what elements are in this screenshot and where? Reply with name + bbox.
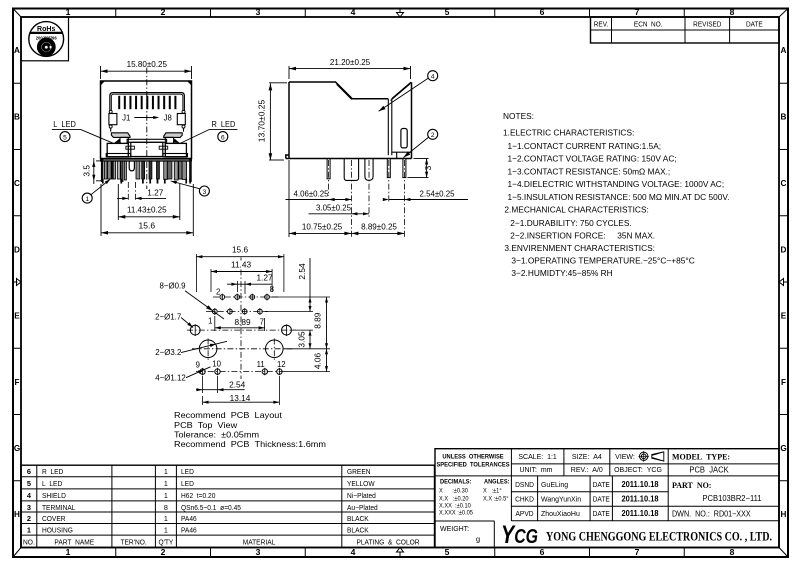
callout 1 <box>82 193 92 203</box>
front view dim 3.5 <box>96 160 101 162</box>
side view dim 4.06 <box>286 199 352 201</box>
svg-text:1.27: 1.27 <box>147 187 163 197</box>
svg-text:10.75±0.25: 10.75±0.25 <box>302 221 343 231</box>
svg-text:X :±1°: X :±1° <box>483 488 502 494</box>
svg-text:Recommend PCB Layout: Recommend PCB Layout <box>174 410 282 420</box>
svg-text:APVD: APVD <box>515 511 533 518</box>
svg-text:5: 5 <box>445 7 450 17</box>
svg-text:21.20±0.25: 21.20±0.25 <box>330 57 371 67</box>
svg-text:12: 12 <box>277 360 286 369</box>
svg-text:8: 8 <box>164 503 168 512</box>
svg-text:Ni−Plated: Ni−Plated <box>347 493 376 500</box>
svg-text:3: 3 <box>423 165 433 170</box>
svg-text:2−2.INSERTION FORCE: 35N M: 2−2.INSERTION FORCE: 35N MAX. <box>510 230 655 240</box>
side view dim 3 <box>414 158 429 160</box>
parts table grid <box>21 465 435 547</box>
svg-text:7: 7 <box>635 547 640 557</box>
callout 4 <box>428 71 438 81</box>
svg-text:1: 1 <box>164 491 168 500</box>
svg-text:1: 1 <box>27 526 31 535</box>
front view contact comb slots <box>118 96 120 109</box>
svg-text:2−1.DURABILITY: 750 CYCLES.: 2−1.DURABILITY: 750 CYCLES. <box>510 218 631 228</box>
title block outline <box>435 449 779 548</box>
callout 5 <box>60 132 70 142</box>
svg-text:1: 1 <box>164 479 168 488</box>
svg-text:2: 2 <box>27 514 31 523</box>
svg-text:F: F <box>781 378 786 387</box>
svg-text:4: 4 <box>27 491 32 500</box>
svg-text:L LED: L LED <box>53 120 76 129</box>
svg-text:E: E <box>781 311 787 320</box>
svg-text:3.05±0.25: 3.05±0.25 <box>316 204 351 213</box>
front view body outline <box>101 81 192 159</box>
front view socket opening <box>110 93 184 111</box>
title block tolerance cell <box>435 475 511 477</box>
side view latch slot <box>401 129 407 148</box>
svg-text:LED: LED <box>181 469 194 476</box>
sheet centering marks <box>397 9 404 18</box>
svg-text:3: 3 <box>27 503 31 512</box>
svg-text:8.89: 8.89 <box>313 312 323 329</box>
svg-text:YONG CHENGGONG ELECTRONICS: YONG CHENGGONG ELECTRONICS CO. , LTD. <box>546 529 772 544</box>
svg-text:SIZE: A4: SIZE: A4 <box>572 452 602 461</box>
side view roof double lines <box>337 84 352 99</box>
svg-text:L LED: L LED <box>42 481 62 488</box>
pcb dim 11.43 <box>228 261 254 270</box>
svg-text:ANGLES:: ANGLES: <box>484 479 509 485</box>
svg-text:1.ELECTRIC CHARACTERISTICS:: 1.ELECTRIC CHARACTERISTICS: <box>503 128 634 138</box>
zone ticks top/bottom <box>115 9 117 18</box>
side view shield inner verticals <box>387 99 389 155</box>
svg-text:1−3.CONTACT RESISTANCE: 50mΩ M: 1−3.CONTACT RESISTANCE: 50mΩ MAX.; <box>508 166 671 176</box>
pcb pins 9-12 <box>196 371 286 373</box>
svg-text:PART NAME: PART NAME <box>54 539 94 546</box>
svg-text:3.05: 3.05 <box>296 331 306 348</box>
svg-text:2011.10.18: 2011.10.18 <box>621 495 659 504</box>
pcb view centerline <box>240 258 242 380</box>
svg-text:8: 8 <box>270 285 274 294</box>
svg-text:3.ENVIRENMENT CHARACTERISTICS:: 3.ENVIRENMENT CHARACTERISTICS: <box>504 243 655 253</box>
svg-text:R LED: R LED <box>211 120 235 129</box>
svg-text:PCB103BR2−111: PCB103BR2−111 <box>702 494 761 503</box>
svg-text:H: H <box>14 510 20 519</box>
front view dim 15.6 <box>100 184 102 236</box>
side view dim 3.05 <box>309 213 370 215</box>
svg-text:RoHs: RoHs <box>37 24 55 33</box>
svg-text:15.6: 15.6 <box>139 220 156 230</box>
svg-text:8.89: 8.89 <box>234 317 250 327</box>
svg-text:6: 6 <box>540 547 545 557</box>
svg-text:ZhouXiaoHu: ZhouXiaoHu <box>541 509 580 518</box>
svg-text:UNLESS OTHERWISE: UNLESS OTHERWISE <box>442 453 503 460</box>
svg-text:PART NO:: PART NO: <box>672 481 711 490</box>
title block part no <box>668 505 779 507</box>
svg-text:B: B <box>781 112 787 121</box>
callout 6 <box>218 132 228 142</box>
svg-text:SHIELD: SHIELD <box>42 493 66 500</box>
svg-text:11: 11 <box>257 360 265 369</box>
svg-text:TER'NO.: TER'NO. <box>120 539 146 546</box>
svg-text:9: 9 <box>196 361 200 370</box>
svg-text:G: G <box>14 444 20 453</box>
front view LED housing left <box>111 133 130 138</box>
RoHS logo circle <box>29 22 64 57</box>
svg-text:QSn6.5−0.1 ø=0.45: QSn6.5−0.1 ø=0.45 <box>181 505 241 512</box>
svg-text:2−Ø3.2: 2−Ø3.2 <box>155 348 182 357</box>
svg-text:PCB Top View: PCB Top View <box>174 420 238 430</box>
svg-text:WangYunXin: WangYunXin <box>541 494 581 503</box>
front view shield edge legs <box>101 159 103 182</box>
svg-text:C: C <box>781 179 787 188</box>
pcb holes 1.7 <box>187 329 296 331</box>
svg-text:4: 4 <box>351 7 356 17</box>
svg-text:DATE: DATE <box>593 496 611 503</box>
svg-text:Au−Plated: Au−Plated <box>347 505 378 512</box>
side view body outline <box>286 82 412 159</box>
svg-text:4.06±0.25: 4.06±0.25 <box>294 189 329 198</box>
svg-text:DATE: DATE <box>593 482 611 489</box>
svg-text:PA46: PA46 <box>181 516 197 523</box>
svg-text:REVISED: REVISED <box>693 21 721 28</box>
svg-text:10: 10 <box>212 360 221 369</box>
svg-text:A: A <box>14 46 20 55</box>
svg-text:1: 1 <box>85 196 89 203</box>
svg-text:2011.10.18: 2011.10.18 <box>621 480 659 489</box>
svg-text:DECIMALS:: DECIMALS: <box>440 479 471 485</box>
svg-text:5: 5 <box>27 479 31 488</box>
frame corner diagonals <box>13 9 21 18</box>
svg-text:11.43±0.25: 11.43±0.25 <box>127 204 167 214</box>
svg-text:3−1.OPERATING TEMPERATURE.−25°: 3−1.OPERATING TEMPERATURE.−25°C~+85°C <box>511 255 694 265</box>
svg-text:2: 2 <box>431 132 435 139</box>
front view centerline <box>146 68 148 190</box>
zone ticks left/right <box>13 82 21 84</box>
svg-text:2: 2 <box>161 7 166 17</box>
pcb top row pin holes <box>213 296 279 298</box>
svg-text:2−Ø1.7: 2−Ø1.7 <box>155 312 182 321</box>
svg-text:NOTES:: NOTES: <box>503 111 534 121</box>
svg-text:3: 3 <box>256 547 261 557</box>
svg-text:J1: J1 <box>122 114 130 123</box>
svg-text:H62 t=0.20: H62 t=0.20 <box>181 493 216 500</box>
svg-text:6: 6 <box>221 134 225 141</box>
svg-text:OBJECT: YCG: OBJECT: YCG <box>614 465 662 474</box>
title block sign rows <box>511 475 779 477</box>
svg-text:VIEW:: VIEW: <box>615 452 635 461</box>
svg-text:3.5: 3.5 <box>82 165 92 177</box>
title block weight cell <box>435 520 494 522</box>
svg-text:WEIGHT:: WEIGHT: <box>440 524 469 533</box>
svg-text:YCG: YCG <box>501 521 538 549</box>
svg-text:GuELing: GuELing <box>541 480 568 489</box>
svg-text:J8: J8 <box>164 114 172 123</box>
svg-text:1: 1 <box>164 514 168 523</box>
svg-text:5: 5 <box>445 547 450 557</box>
svg-text:4.06: 4.06 <box>313 353 323 370</box>
svg-text:F: F <box>14 378 19 387</box>
svg-text:R LED: R LED <box>42 469 63 476</box>
svg-text:BLACK: BLACK <box>347 527 369 534</box>
svg-text:5: 5 <box>63 134 67 141</box>
svg-text:1: 1 <box>164 467 168 476</box>
RoHS logo box <box>21 17 69 61</box>
front view U pin <box>129 161 134 171</box>
svg-text:7: 7 <box>635 7 640 17</box>
pcb bottom row pin holes <box>206 311 268 313</box>
svg-text:3−2.HUMIDTY:45−85% RH: 3−2.HUMIDTY:45−85% RH <box>511 268 612 278</box>
svg-text:SCALE: 1:1: SCALE: 1:1 <box>518 452 556 461</box>
svg-text:H: H <box>781 510 787 519</box>
side view bottom right foot <box>392 151 412 153</box>
svg-text:DATE: DATE <box>746 21 763 28</box>
svg-text:8.89±0.25: 8.89±0.25 <box>361 221 397 231</box>
svg-text:2.54: 2.54 <box>229 379 245 389</box>
svg-text:g: g <box>476 534 480 543</box>
svg-text:B: B <box>14 112 20 121</box>
front view side latch left <box>109 110 112 113</box>
svg-text:GREEN: GREEN <box>347 469 371 476</box>
svg-text:UNIT: mm: UNIT: mm <box>519 465 552 474</box>
side view pin 2 <box>344 159 358 181</box>
svg-text:3: 3 <box>256 7 261 17</box>
svg-text:8: 8 <box>730 7 735 17</box>
side view pin 1 <box>327 159 330 179</box>
svg-text:1: 1 <box>66 547 71 557</box>
svg-text:Recommend PCB Thickness:1.6m: Recommend PCB Thickness:1.6mm <box>174 439 326 449</box>
svg-text:6: 6 <box>27 467 31 476</box>
front view side latch right <box>182 110 185 113</box>
svg-text:ECN NO.: ECN NO. <box>634 21 663 28</box>
svg-text:3: 3 <box>203 189 207 196</box>
front view dim 1.27 <box>117 197 128 199</box>
svg-text:TERMINAL: TERMINAL <box>42 505 76 512</box>
svg-text:2: 2 <box>161 547 166 557</box>
front view shield base band <box>101 159 192 161</box>
svg-text:X :±0.30: X :±0.30 <box>439 488 469 494</box>
svg-text:MATERIAL: MATERIAL <box>243 539 276 546</box>
svg-text:2.54±0.25: 2.54±0.25 <box>420 189 455 198</box>
svg-text:1: 1 <box>164 526 168 535</box>
svg-text:Q'TY: Q'TY <box>158 539 173 546</box>
svg-text:LED: LED <box>181 481 194 488</box>
svg-text:X.XX :±0.10: X.XX :±0.10 <box>439 503 471 509</box>
svg-text:8: 8 <box>730 547 735 557</box>
RoHS logo emblem <box>37 38 55 56</box>
svg-text:6: 6 <box>540 7 545 17</box>
side view pin 5 <box>403 159 406 178</box>
svg-text:PCB JACK: PCB JACK <box>689 465 729 474</box>
pcb holes 3.2 <box>192 348 294 350</box>
side view dim 2.54 <box>389 199 468 201</box>
front view center bar <box>127 139 167 142</box>
svg-text:2: 2 <box>216 287 220 296</box>
svg-text:8−Ø0.9: 8−Ø0.9 <box>159 281 186 290</box>
svg-text:1: 1 <box>208 316 212 325</box>
svg-text:D: D <box>781 245 787 254</box>
svg-text:BLACK: BLACK <box>347 516 369 523</box>
svg-text:PLATING & COLOR: PLATING & COLOR <box>356 539 419 546</box>
svg-text:CHKD: CHKD <box>515 496 534 503</box>
callout 2 <box>428 129 438 139</box>
svg-text:4: 4 <box>351 547 356 557</box>
svg-text:YELLOW: YELLOW <box>347 481 375 488</box>
svg-text:4−Ø1.12: 4−Ø1.12 <box>155 373 186 382</box>
side view dim 10.75 and 8.89 <box>288 160 290 237</box>
revision table <box>591 17 780 43</box>
svg-text:REV.: REV. <box>594 21 609 28</box>
svg-text:X.XXX :±0.05: X.XXX :±0.05 <box>439 510 474 516</box>
svg-text:HOUSING: HOUSING <box>42 527 73 534</box>
svg-text:15.6: 15.6 <box>232 245 248 255</box>
svg-text:X.X :±0.5°: X.X :±0.5° <box>483 496 509 502</box>
svg-text:2011.10.18: 2011.10.18 <box>621 509 659 518</box>
svg-text:4: 4 <box>431 74 435 81</box>
svg-text:11.43: 11.43 <box>231 259 251 269</box>
svg-text:DSND: DSND <box>515 482 534 489</box>
svg-text:C: C <box>14 179 20 188</box>
svg-text:G: G <box>780 444 786 453</box>
svg-text:13.14: 13.14 <box>230 393 251 403</box>
front view LED housing right <box>164 133 183 138</box>
side view pin 3 <box>365 159 373 181</box>
callout 3 <box>199 186 209 196</box>
svg-text:15.80±0.25: 15.80±0.25 <box>127 59 168 69</box>
svg-text:D: D <box>14 245 20 254</box>
svg-text:1: 1 <box>66 7 71 17</box>
front view pin centerlines <box>127 182 129 201</box>
svg-text:7: 7 <box>260 317 264 326</box>
svg-text:MODEL TYPE:: MODEL TYPE: <box>672 452 730 461</box>
front view pin tails <box>102 179 103 183</box>
svg-text:PA46: PA46 <box>181 527 197 534</box>
svg-text:2.MECHANICAL CHARACTERISTICS:: 2.MECHANICAL CHARACTERISTICS: <box>504 205 648 215</box>
side view pin 4 <box>387 159 390 178</box>
svg-text:DWN. NO.: RD01−XXX: DWN. NO.: RD01−XXX <box>672 509 751 518</box>
svg-text:COVER: COVER <box>42 516 66 523</box>
svg-text:DATE: DATE <box>593 511 611 518</box>
svg-text:NO.: NO. <box>23 539 35 546</box>
svg-text:1−4.DIELECTRIC WITHSTANDING VO: 1−4.DIELECTRIC WITHSTANDING VOLTAGE: 100… <box>508 179 725 189</box>
view angle symbols <box>640 452 648 460</box>
svg-text:Tolerance: ±0.05mm: Tolerance: ±0.05mm <box>174 430 259 440</box>
svg-text:1−5.INSULATION RESISTANCE: 500: 1−5.INSULATION RESISTANCE: 500 MΩ MIN.AT… <box>508 192 730 202</box>
title block scale row <box>511 463 779 465</box>
svg-text:2.54: 2.54 <box>297 263 307 280</box>
svg-text:X.X :±0.20: X.X :±0.20 <box>439 496 469 502</box>
svg-text:1−2.CONTACT VOLTAGE RATING: 15: 1−2.CONTACT VOLTAGE RATING: 150V AC; <box>508 154 677 164</box>
svg-text:1.27: 1.27 <box>256 273 272 283</box>
svg-text:13.70±0.25: 13.70±0.25 <box>256 99 266 142</box>
front view dim 11.43 <box>117 184 119 220</box>
svg-text:A: A <box>781 46 787 55</box>
svg-text:1−1.CONTACT CURRENT RATING:1.5: 1−1.CONTACT CURRENT RATING:1.5A; <box>508 141 662 151</box>
svg-text:REV.: A/0: REV.: A/0 <box>571 465 603 474</box>
front view shield legs and contact pins <box>104 161 107 179</box>
svg-text:SPECIFIED TOLERANCES: SPECIFIED TOLERANCES <box>436 461 509 468</box>
svg-text:E: E <box>14 311 20 320</box>
